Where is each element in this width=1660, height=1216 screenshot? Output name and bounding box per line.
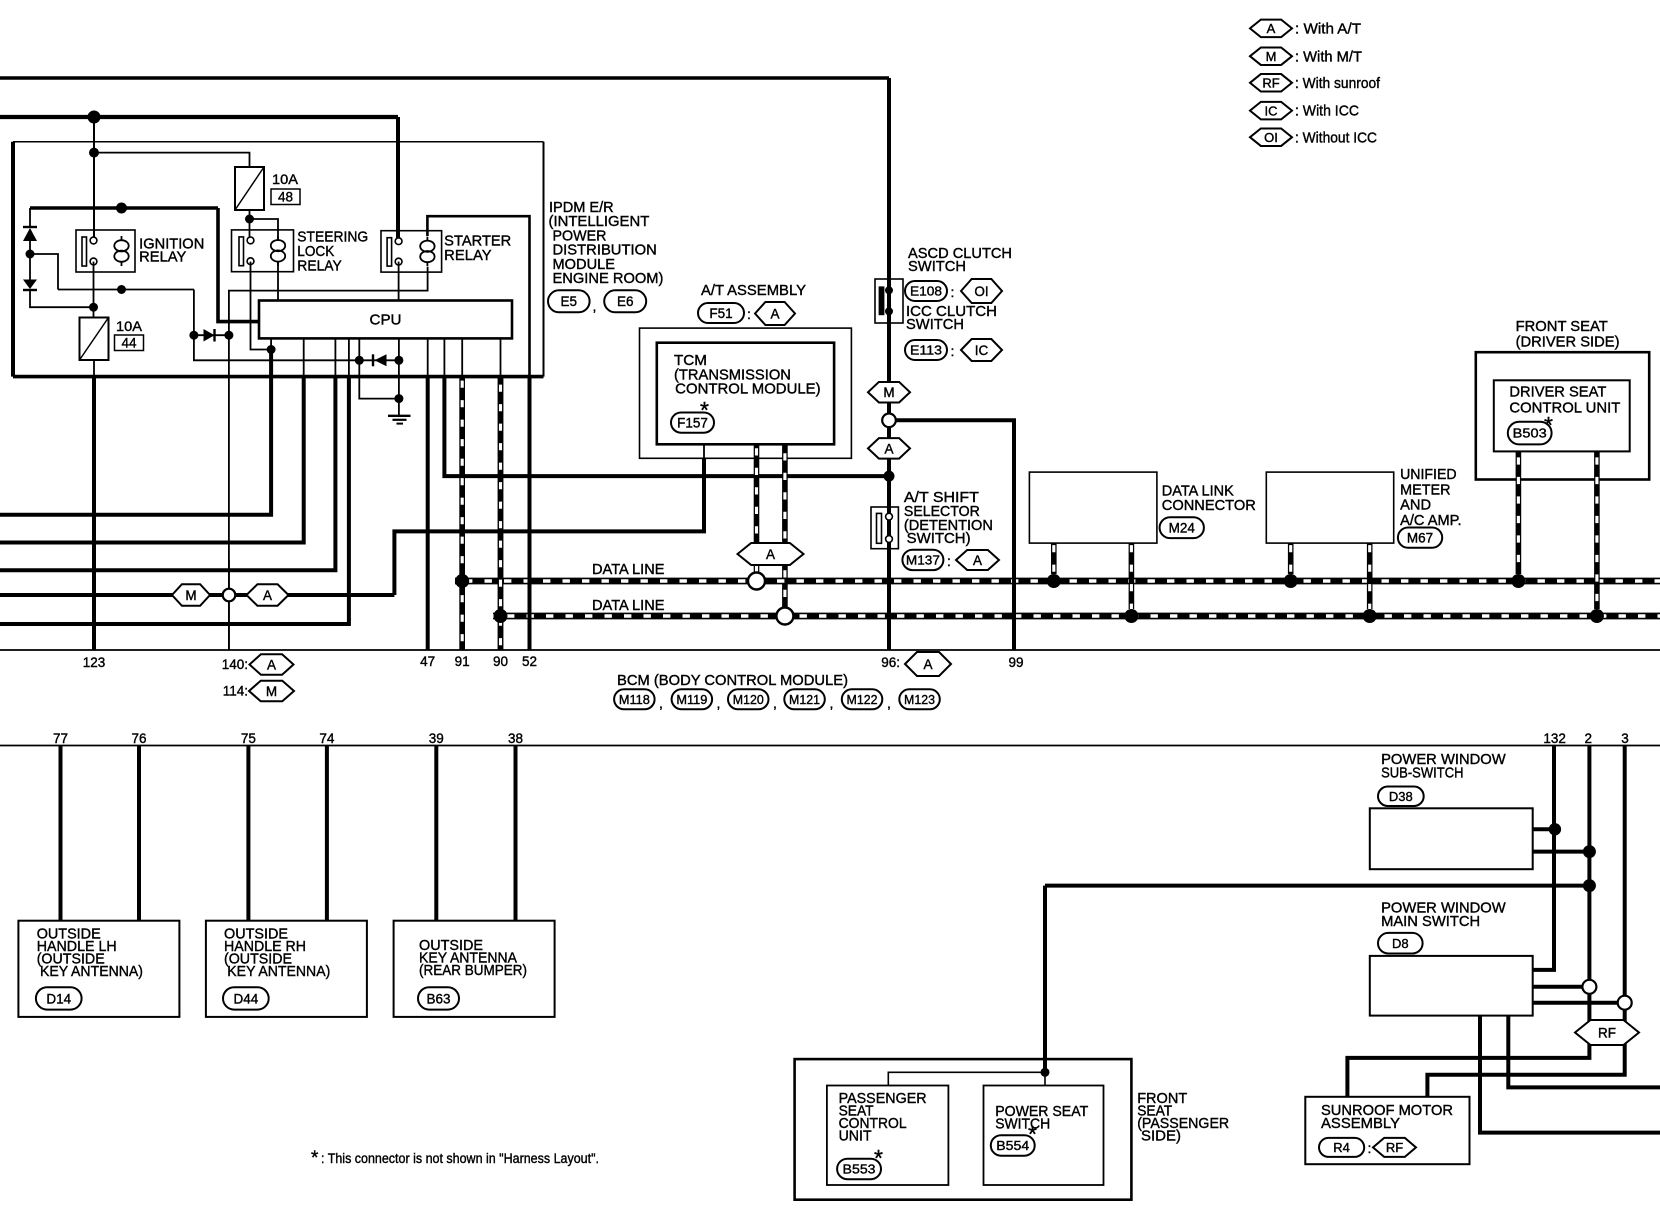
wire pin 39 to B63 xyxy=(434,746,438,921)
svg-text:M: M xyxy=(883,385,894,400)
svg-text:ASSEMBLY: ASSEMBLY xyxy=(1321,1116,1400,1132)
open circle connector on TCM net xyxy=(223,589,236,602)
connector E113 xyxy=(905,340,947,360)
svg-text:77: 77 xyxy=(53,731,68,746)
svg-text:: With M/T: : With M/T xyxy=(1295,49,1362,65)
wire TCM CAN-L xyxy=(782,444,788,607)
svg-text:M: M xyxy=(1266,49,1277,64)
connector D38 xyxy=(1378,787,1424,807)
TCM box xyxy=(657,343,834,445)
wire starter coil top feed xyxy=(427,216,529,376)
wire CPU ground leg xyxy=(398,338,400,415)
svg-text:RELAY: RELAY xyxy=(444,248,492,264)
svg-text:A/T ASSEMBLY: A/T ASSEMBLY xyxy=(701,283,806,299)
value box 44 xyxy=(115,335,144,351)
node junction ignition feed xyxy=(88,111,101,124)
wire CPU out 2 (left exit y542) xyxy=(303,338,305,378)
wire to pin 99 xyxy=(889,420,1014,650)
svg-text:3: 3 xyxy=(1621,731,1629,746)
svg-text:RELAY: RELAY xyxy=(297,259,342,275)
harness boundary rail 2 xyxy=(0,745,1660,747)
svg-text:CONTROL MODULE): CONTROL MODULE) xyxy=(675,382,820,398)
A/T assembly box xyxy=(640,328,852,458)
svg-text:UNIT: UNIT xyxy=(839,1129,872,1145)
connector M67 xyxy=(1398,528,1442,548)
svg-text:SWITCH: SWITCH xyxy=(906,317,964,333)
wire to pins 140/114 xyxy=(228,335,230,650)
svg-text:10A: 10A xyxy=(272,172,298,187)
wire starter coil return path xyxy=(229,267,428,335)
wire fuse 48 output xyxy=(249,210,251,219)
diode D-up xyxy=(23,226,37,228)
open circle on wire 2 xyxy=(1582,980,1596,994)
node D4 right xyxy=(394,356,403,365)
svg-text:44: 44 xyxy=(121,336,137,351)
svg-text:M: M xyxy=(185,588,196,603)
diode D3 cathode node xyxy=(224,331,233,340)
svg-text::: : xyxy=(951,343,955,359)
power window sub-switch box xyxy=(1370,808,1533,869)
svg-text:A: A xyxy=(884,441,893,456)
open circle on main vertical xyxy=(882,414,896,428)
hexagon RF for R4 xyxy=(1373,1138,1416,1157)
svg-text:99: 99 xyxy=(1008,655,1023,670)
wire diode to fuse44 node xyxy=(30,290,94,307)
svg-text:114:: 114: xyxy=(223,684,248,699)
svg-text:: With A/T: : With A/T xyxy=(1295,22,1361,38)
wire main pin to circle 2 xyxy=(1533,985,1583,989)
relay: ignition relay xyxy=(76,230,135,272)
svg-text:,: , xyxy=(593,298,597,314)
node y476 junction xyxy=(884,471,895,482)
svg-text:M121: M121 xyxy=(789,692,820,707)
svg-text:AND: AND xyxy=(1400,498,1431,514)
svg-text:RELAY: RELAY xyxy=(139,250,186,266)
wire main switch out A xyxy=(1508,1016,1660,1088)
node CAN-L pin90 on data line 2 xyxy=(494,609,508,623)
svg-text:M123: M123 xyxy=(904,692,935,707)
node ground junction xyxy=(394,394,403,403)
wire CPU CAN-L (pin 90) xyxy=(500,338,502,378)
connector M120 xyxy=(728,689,769,709)
value box 48 xyxy=(271,189,300,205)
wire fuse 44 to pin 123 xyxy=(93,360,95,377)
wire B503 pin2 xyxy=(1594,451,1600,609)
svg-text:DRIVER SEAT: DRIVER SEAT xyxy=(1509,385,1606,401)
sunroof motor assembly box xyxy=(1305,1097,1469,1164)
node fuse-48 branch xyxy=(89,148,99,158)
node fuse 48 output xyxy=(245,215,254,224)
svg-text:F51: F51 xyxy=(709,306,732,321)
connector D14 xyxy=(36,987,82,1009)
wire starter contact to CPU xyxy=(398,262,400,301)
wire CPU out 3 (left exit y570) xyxy=(334,338,336,378)
wire to steering lock relay contact xyxy=(249,219,251,239)
svg-text:D44: D44 xyxy=(233,991,258,1006)
svg-text:RF: RF xyxy=(1386,1140,1403,1155)
wire D4 ground jog xyxy=(359,360,399,398)
svg-text:B553: B553 xyxy=(843,1162,876,1177)
node fuse44 input xyxy=(89,303,98,312)
wire pin 75 to D44 xyxy=(246,746,250,921)
wire TCM pin solid xyxy=(703,444,705,460)
connector F51 xyxy=(698,303,744,323)
svg-text:,: , xyxy=(887,695,891,711)
wire main switch out B xyxy=(1480,1016,1660,1133)
connector F157 xyxy=(671,413,714,433)
CPU box xyxy=(259,301,512,339)
wire TCM CAN-H xyxy=(754,444,760,572)
diode D3 xyxy=(194,334,229,336)
svg-text:38: 38 xyxy=(508,731,523,746)
svg-text:90: 90 xyxy=(493,654,508,669)
hexagon M on TCM net xyxy=(172,584,210,606)
svg-text:KEY ANTENNA): KEY ANTENNA) xyxy=(227,964,330,980)
wire M67 pin1 xyxy=(1288,543,1294,574)
svg-text:FRONT SEAT: FRONT SEAT xyxy=(1516,319,1608,335)
legend hexagon RF xyxy=(1250,74,1292,92)
svg-text:132: 132 xyxy=(1543,731,1566,746)
svg-text:MAIN SWITCH: MAIN SWITCH xyxy=(1381,914,1480,930)
wire jog to coil return xyxy=(30,254,58,290)
svg-text:M118: M118 xyxy=(619,692,650,707)
wire M67 pin2 xyxy=(1367,543,1373,609)
svg-text:OI: OI xyxy=(974,284,988,299)
svg-text:E108: E108 xyxy=(910,284,942,299)
wire TCM to M/A net xyxy=(394,458,704,595)
svg-text:75: 75 xyxy=(241,731,256,746)
wire CPU out 1 (left exit y514) xyxy=(270,338,272,351)
node M24 pin2 on data2 xyxy=(1124,609,1138,623)
svg-text:UNIFIED: UNIFIED xyxy=(1400,467,1457,483)
wire crossing fixes xyxy=(459,377,465,650)
svg-text:76: 76 xyxy=(131,731,146,746)
passenger seat control unit box xyxy=(827,1086,949,1186)
relay: starter relay xyxy=(381,231,442,272)
hexagon OI xyxy=(961,279,1002,303)
wire to steering lock relay coil xyxy=(250,219,279,241)
svg-text:: With ICC: : With ICC xyxy=(1295,104,1359,120)
open circle TCM CAN-H join xyxy=(748,573,765,590)
connector R4 xyxy=(1319,1138,1364,1157)
wire ignition feed xyxy=(0,115,398,119)
relay: steering lock relay xyxy=(232,230,294,272)
connector E108 xyxy=(905,281,947,301)
power seat switch box xyxy=(984,1086,1104,1186)
svg-text:CPU: CPU xyxy=(370,312,402,329)
wire CPU out 4 (left exit y627) xyxy=(348,338,350,378)
svg-text:E6: E6 xyxy=(617,294,634,309)
wire B503 pin1 xyxy=(1516,451,1522,574)
svg-text:140:: 140: xyxy=(222,657,248,672)
node B503 pin1 on data1 xyxy=(1511,574,1525,588)
data link connector box xyxy=(1029,472,1157,543)
wire 3 to sunroof pin2 xyxy=(1427,1010,1624,1097)
open circle on wire 3 xyxy=(1618,996,1632,1010)
wire pin 76 to D14 xyxy=(137,746,141,921)
hexagon RF over wires 2/3 xyxy=(1575,1020,1639,1045)
connector M121 xyxy=(784,689,825,709)
fuse 48 10A xyxy=(235,167,264,210)
svg-text:RF: RF xyxy=(1262,75,1279,90)
svg-text:F157: F157 xyxy=(677,415,708,430)
wire CPU CAN-H (pin 91) xyxy=(461,338,463,378)
node sub pin1 on 132 xyxy=(1549,823,1561,835)
wire E108/E113 main vertical xyxy=(887,78,891,650)
legend hexagon M xyxy=(1250,47,1292,64)
wire steering coil to CPU xyxy=(277,261,279,301)
wire 132 rail to main switch xyxy=(1533,746,1554,970)
connector M118 xyxy=(614,689,655,709)
data line 2 (CAN-L bus) xyxy=(493,613,1660,620)
connector M119 xyxy=(672,689,713,709)
svg-text:OI: OI xyxy=(1264,130,1278,145)
connector M123 xyxy=(899,689,940,709)
node B503 pin2 on data2 xyxy=(1590,609,1604,623)
node CAN-H pin91 on data line 1 xyxy=(455,574,469,588)
wire sub-switch pin1 xyxy=(1533,827,1555,831)
svg-text:IC: IC xyxy=(975,343,989,358)
svg-text:SUB-SWITCH: SUB-SWITCH xyxy=(1381,766,1463,782)
hexagon IC xyxy=(961,339,1002,361)
svg-text:SWITCH: SWITCH xyxy=(908,259,966,275)
svg-text:SWITCH: SWITCH xyxy=(995,1117,1050,1133)
diode D3 anode node xyxy=(189,331,198,340)
svg-text:B503: B503 xyxy=(1513,426,1547,441)
svg-text:M122: M122 xyxy=(847,692,878,707)
outside handle RH box xyxy=(206,921,367,1017)
fuse 44 10A xyxy=(80,318,109,361)
diode D4 xyxy=(359,359,399,361)
svg-text::: : xyxy=(747,306,751,322)
svg-text:M137: M137 xyxy=(906,553,940,568)
wire to starter relay contact xyxy=(396,117,400,240)
svg-text:39: 39 xyxy=(429,731,444,746)
svg-text:M120: M120 xyxy=(733,692,764,707)
svg-text::: : xyxy=(1368,1140,1372,1156)
outside handle LH box xyxy=(18,921,179,1017)
node diode pair mid xyxy=(26,250,35,259)
svg-text:M119: M119 xyxy=(676,692,707,707)
svg-text:D8: D8 xyxy=(1392,936,1409,951)
wire diode D3 to D4 y360 xyxy=(194,335,359,360)
svg-text:METER: METER xyxy=(1400,482,1450,498)
connector M122 xyxy=(842,689,883,709)
wire to B554 xyxy=(1044,1072,1046,1085)
diode D-down xyxy=(29,254,31,280)
data line 1 (CAN-H bus) xyxy=(455,578,1660,585)
wire 2 to sunroof pin1 xyxy=(1347,994,1589,1097)
svg-text:A: A xyxy=(770,306,779,321)
wire 3 rail down xyxy=(1623,746,1627,997)
wire main pin to circle 3 xyxy=(1533,1001,1618,1005)
svg-text:A: A xyxy=(267,657,276,672)
diode pair column xyxy=(29,208,31,227)
wire ignition contact to fuse 44 xyxy=(93,262,95,318)
front seat driver side box xyxy=(1476,352,1649,479)
svg-text:E5: E5 xyxy=(561,294,578,309)
wire coil return y289 xyxy=(58,289,194,291)
node M67 pin1 on data1 xyxy=(1284,574,1298,588)
wire M/A to left edge y595 xyxy=(0,593,394,597)
node seat feed on 2 xyxy=(1583,879,1596,892)
svg-text::: : xyxy=(951,284,955,300)
svg-text:BCM (BODY CONTROL MODULE): BCM (BODY CONTROL MODULE) xyxy=(617,673,848,689)
legend hexagon IC xyxy=(1250,102,1292,120)
svg-text:ENGINE ROOM): ENGINE ROOM) xyxy=(553,271,664,287)
legend hexagon A xyxy=(1250,20,1292,38)
node M24 pin1 on data1 xyxy=(1047,574,1061,588)
svg-text:91: 91 xyxy=(455,654,470,669)
wire to ignition relay branch xyxy=(93,117,95,241)
hexagon A for M137 xyxy=(956,550,999,570)
open circle TCM CAN-L join xyxy=(776,608,793,625)
svg-text:D14: D14 xyxy=(46,991,71,1006)
svg-text:52: 52 xyxy=(522,654,537,669)
node M67 pin2 on data2 xyxy=(1363,609,1377,623)
node ignition coil feed xyxy=(116,203,127,214)
svg-text::: : xyxy=(947,553,951,569)
node seat feed split xyxy=(1041,1068,1050,1077)
unified meter box xyxy=(1266,472,1393,543)
node sub pin2 on 2 xyxy=(1583,845,1596,858)
svg-text:R4: R4 xyxy=(1333,1140,1350,1155)
wire to fuse 48 xyxy=(94,153,250,167)
driver seat control unit box xyxy=(1494,380,1630,451)
connector E6 xyxy=(604,290,646,312)
wire 2 rail down xyxy=(1587,746,1591,981)
wire seat feed down xyxy=(1043,886,1047,1073)
wire steering contact to CPU net xyxy=(251,262,272,350)
connector B503 xyxy=(1508,422,1552,445)
wire to pin 52 xyxy=(528,375,532,650)
wire battery feed top xyxy=(0,76,889,80)
outside key antenna box xyxy=(394,921,555,1017)
svg-text:(REAR BUMPER): (REAR BUMPER) xyxy=(419,963,527,979)
svg-text:2: 2 xyxy=(1585,731,1593,746)
svg-text:48: 48 xyxy=(278,190,293,205)
front seat passenger box xyxy=(795,1059,1132,1200)
wire y208 corner to CPU xyxy=(218,208,259,322)
svg-text:,: , xyxy=(830,695,834,711)
svg-text:DATA LINE: DATA LINE xyxy=(592,562,665,578)
power window main switch box xyxy=(1370,956,1533,1016)
svg-text:,: , xyxy=(773,695,777,711)
svg-text:M24: M24 xyxy=(1169,521,1196,536)
connector B63 xyxy=(418,987,459,1009)
wire pin 38 to B63 xyxy=(514,746,518,921)
connector B553 xyxy=(837,1159,881,1180)
hexagon A on main vertical xyxy=(868,438,910,459)
connector D8 xyxy=(1378,933,1423,954)
svg-text:A: A xyxy=(973,553,982,568)
connector D44 xyxy=(223,987,269,1009)
svg-text:(DRIVER SIDE): (DRIVER SIDE) xyxy=(1516,335,1620,351)
hexagon A for F51 xyxy=(755,302,795,325)
svg-text:SWITCH): SWITCH) xyxy=(907,531,971,547)
connector E5 xyxy=(548,290,590,312)
wire bus y208 xyxy=(30,206,218,210)
svg-text:M67: M67 xyxy=(1407,531,1433,546)
svg-text:96:: 96: xyxy=(881,655,900,670)
svg-text:A: A xyxy=(263,588,272,603)
connector M24 xyxy=(1160,517,1204,538)
connector M137 xyxy=(902,550,943,570)
svg-text:IC: IC xyxy=(1265,103,1278,118)
svg-text:RF: RF xyxy=(1598,1025,1616,1040)
node diode D4 left xyxy=(355,356,364,365)
svg-text:A: A xyxy=(766,547,775,562)
hexagon A on TCM net xyxy=(247,584,289,606)
wire pin 77 to D14 xyxy=(59,746,63,921)
connector B554 xyxy=(991,1135,1035,1156)
svg-text:123: 123 xyxy=(83,655,106,670)
wire CPU to diode D4 anode xyxy=(358,338,360,360)
hexagon A over TCM CAN pair xyxy=(738,543,804,565)
svg-text:CONTROL UNIT: CONTROL UNIT xyxy=(1509,400,1620,416)
svg-text:DATA LINE: DATA LINE xyxy=(592,598,665,614)
svg-text:47: 47 xyxy=(420,654,435,669)
svg-text:A: A xyxy=(1267,21,1276,36)
svg-text:: With sunroof: : With sunroof xyxy=(1295,76,1381,92)
svg-text:B63: B63 xyxy=(426,991,450,1006)
svg-text:*: * xyxy=(311,1148,319,1169)
svg-text:E113: E113 xyxy=(910,343,942,358)
legend hexagon OI xyxy=(1250,128,1292,146)
svg-text:74: 74 xyxy=(319,731,335,746)
wire to diode D3 xyxy=(193,290,195,336)
svg-text:CONNECTOR: CONNECTOR xyxy=(1162,498,1256,514)
svg-text:,: , xyxy=(717,695,721,711)
svg-text:KEY ANTENNA): KEY ANTENNA) xyxy=(40,964,143,980)
svg-text:,: , xyxy=(659,695,663,711)
wire CPU to pin 47 xyxy=(427,338,429,378)
svg-text:M: M xyxy=(266,684,277,699)
svg-text:: Without ICC: : Without ICC xyxy=(1295,130,1377,146)
wire passenger seat feed y885 xyxy=(1045,884,1589,888)
wire CPU to node 96 (y476) xyxy=(443,338,445,378)
node CPU pin 271 xyxy=(267,345,276,354)
hexagon M on main vertical xyxy=(868,382,910,403)
wire M24 pin2 xyxy=(1129,543,1135,609)
A/T shift selector switch xyxy=(871,507,898,549)
ground symbol xyxy=(388,415,411,417)
wire to B553 xyxy=(888,1072,1045,1085)
wire M24 pin1 xyxy=(1051,543,1057,574)
clutch switch symbol xyxy=(875,279,903,323)
svg-text:SIDE): SIDE) xyxy=(1141,1129,1181,1145)
IPDM/BCM boundary rail xyxy=(0,649,1660,651)
svg-text:10A: 10A xyxy=(116,319,142,334)
svg-text:: This connector is not shown: : This connector is not shown in "Harnes… xyxy=(321,1151,599,1166)
svg-text:A: A xyxy=(923,657,932,672)
svg-text:D38: D38 xyxy=(1389,789,1413,804)
node ignition coil return xyxy=(117,285,126,294)
wire pin 74 to D44 xyxy=(325,746,329,921)
svg-text:B554: B554 xyxy=(996,1138,1029,1153)
IPDM E/R box xyxy=(13,142,544,377)
wire sub-switch pin2 xyxy=(1533,850,1590,854)
